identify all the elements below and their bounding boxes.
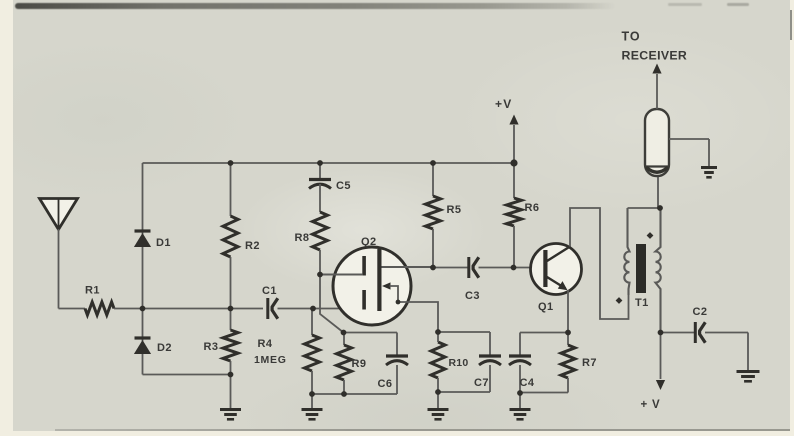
svg-text:+V: +V [495, 97, 512, 111]
svg-text:C1: C1 [262, 285, 277, 297]
svg-text:RECEIVER: RECEIVER [622, 49, 688, 63]
svg-text:R4: R4 [258, 338, 273, 350]
svg-text:R3: R3 [204, 341, 219, 353]
svg-text:R2: R2 [245, 240, 260, 252]
svg-text:R8: R8 [295, 232, 310, 244]
svg-text:R10: R10 [449, 357, 469, 369]
svg-text:C5: C5 [336, 180, 351, 192]
svg-text:+ V: + V [641, 399, 661, 411]
svg-text:C7: C7 [474, 377, 489, 389]
svg-text:D1: D1 [156, 237, 171, 249]
svg-text:C3: C3 [465, 290, 480, 302]
svg-text:C2: C2 [693, 306, 708, 318]
svg-text:R5: R5 [447, 204, 462, 216]
svg-text:C6: C6 [378, 378, 393, 390]
svg-text:Q1: Q1 [538, 301, 553, 313]
svg-text:TO: TO [622, 30, 641, 44]
svg-text:R1: R1 [85, 285, 100, 297]
svg-text:C4: C4 [520, 377, 535, 389]
svg-text:1MEG: 1MEG [254, 354, 287, 366]
svg-text:R9: R9 [352, 358, 367, 370]
svg-text:R6: R6 [525, 202, 540, 214]
svg-text:Q2: Q2 [361, 236, 376, 248]
svg-text:R7: R7 [582, 357, 597, 369]
svg-text:T1: T1 [635, 297, 649, 309]
svg-text:D2: D2 [157, 342, 172, 354]
